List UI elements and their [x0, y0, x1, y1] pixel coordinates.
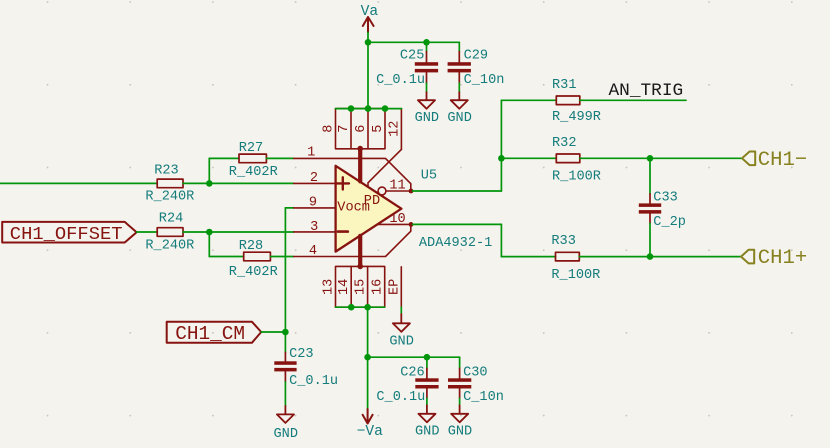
wire pin 15 down to -Va junction [367, 307, 369, 357]
wire C29 bottom lead [458, 83, 460, 92]
svg-text:R_100R: R_100R [551, 268, 600, 283]
svg-text:R32: R32 [552, 136, 576, 151]
svg-text:U5: U5 [421, 168, 437, 183]
svg-text:4: 4 [309, 244, 317, 259]
wire R23 to junction [183, 182, 209, 184]
svg-text:GND: GND [389, 334, 413, 349]
hierarchical label CH1- [742, 149, 807, 172]
wire input to R23 [0, 182, 157, 184]
wire C25 bottom lead [426, 83, 428, 92]
capacitor C23 [274, 347, 338, 389]
junction CH1_CM / C23 [282, 329, 289, 336]
svg-text:GND: GND [415, 424, 439, 439]
op-amp U5 bottom supply pin box (pins 13,14,15,16) [336, 266, 385, 307]
junction at Va branch [365, 39, 372, 46]
resistor R32 [552, 136, 601, 185]
svg-text:C29: C29 [464, 49, 488, 64]
hierarchical label CH1+ [741, 247, 807, 270]
svg-text:10: 10 [389, 212, 405, 227]
global label CH1_OFFSET [2, 222, 136, 245]
resistor R33 [551, 234, 600, 283]
op-amp U5 plus input marker [337, 177, 349, 189]
op-amp U5 body triangle [336, 166, 402, 252]
wire to R28 [209, 256, 243, 258]
resistor R24 [145, 212, 194, 254]
svg-text:R31: R31 [552, 78, 576, 93]
junction C33 top [647, 155, 654, 162]
svg-text:R27: R27 [239, 141, 263, 156]
svg-text:ADA4932-1: ADA4932-1 [419, 236, 492, 251]
PD diagonal route to triangle [368, 149, 401, 187]
pin 14 divider line [350, 266, 352, 307]
wire C30 top lead [459, 357, 461, 368]
junction pin 15 [364, 304, 371, 311]
svg-text:R_402R: R_402R [229, 265, 278, 280]
svg-text:GND: GND [274, 427, 298, 442]
junction pin 14 [348, 304, 355, 311]
wire Va vertical to U5 top pins [367, 32, 369, 108]
svg-text:16: 16 [371, 279, 386, 295]
wire EP to ground [400, 307, 402, 314]
svg-text:C30: C30 [463, 365, 487, 380]
pin 3 stub [294, 231, 336, 233]
resistor R28 [229, 239, 278, 280]
svg-text:GND: GND [447, 111, 471, 126]
svg-text:11: 11 [389, 179, 405, 194]
svg-text:R_100R: R_100R [552, 170, 601, 185]
svg-text:R33: R33 [551, 234, 575, 249]
wire junction down to R28 line [208, 232, 210, 257]
svg-text:GND: GND [415, 111, 439, 126]
svg-text:R28: R28 [239, 239, 263, 254]
wire down to -Va flag [367, 357, 369, 409]
svg-text:15: 15 [354, 279, 369, 295]
junction -Va branch [364, 354, 371, 361]
wire R28 to pin 4 [270, 256, 293, 258]
junction R32 branch [498, 155, 505, 162]
wire right bus vertical [500, 100, 502, 191]
svg-text:Va: Va [361, 4, 379, 20]
wire C23 bottom lead [284, 382, 286, 406]
wire C33 bottom lead [649, 223, 651, 256]
power flag -Va [363, 409, 373, 424]
ground under C30 [448, 405, 472, 439]
svg-text:C23: C23 [289, 347, 313, 362]
wire CH1_CM to junction [261, 331, 285, 333]
pin 11 connection dot [409, 189, 414, 194]
pin 10 output line [377, 223, 411, 225]
pin 7 divider line [350, 109, 352, 149]
pin 11 output line [386, 190, 411, 192]
svg-text:GND: GND [448, 424, 472, 439]
svg-text:2: 2 [310, 171, 318, 186]
svg-text:C_10n: C_10n [463, 390, 504, 405]
svg-text:C_2p: C_2p [653, 215, 686, 230]
ground under C29 [447, 92, 471, 126]
op-amp U5 minus input marker [338, 230, 348, 233]
pin 9 stub [294, 207, 336, 209]
svg-text:C_0.1u: C_0.1u [376, 390, 425, 405]
pin 11 inverted output bubble [378, 187, 386, 195]
wire top supply row [336, 108, 402, 110]
wire junction dots on top supply wire [348, 105, 355, 112]
capacitor C29 [448, 49, 505, 88]
svg-text:R_240R: R_240R [145, 190, 194, 205]
ground under C26 [415, 405, 439, 439]
resistor R27 [229, 141, 278, 180]
svg-text:9: 9 [309, 196, 317, 211]
wire to R31 [501, 99, 556, 101]
svg-text:CH1+: CH1+ [758, 247, 807, 270]
thick supply line bottom [358, 236, 362, 267]
svg-text:6: 6 [354, 125, 369, 133]
wire R31 to AN_TRIG [580, 99, 686, 101]
pin 6 divider line [367, 109, 369, 149]
pin 1 feedback line [294, 158, 411, 191]
pin 15 divider line [367, 266, 369, 307]
wire right bus down to R33 line [500, 224, 502, 256]
wire R24 to junction [183, 231, 209, 233]
ground under C23 [274, 406, 298, 442]
thick supply line top [358, 149, 362, 182]
ground under C25 [415, 92, 439, 126]
resistor R31 [552, 78, 601, 125]
svg-text:8: 8 [322, 125, 337, 133]
svg-text:5: 5 [371, 125, 386, 133]
wire to R33 [501, 256, 555, 258]
wire pin 9 vertical down to CH1_CM [284, 208, 286, 332]
wire CH1_OFFSET to R24 [137, 231, 158, 233]
pin EP exposed pad line [400, 267, 402, 307]
wire R27 to pin 1 [266, 157, 293, 159]
wire junction up to R27 line [208, 158, 210, 183]
capacitor C33 [639, 190, 686, 230]
wire pin 9 horizontal [285, 207, 293, 209]
svg-text:C26: C26 [400, 365, 424, 380]
wire C33 top lead [649, 158, 651, 194]
capacitor C30 [448, 365, 504, 405]
ground at EP [389, 314, 413, 349]
svg-text:EP: EP [387, 279, 402, 295]
pin 12 PD pin line [400, 109, 402, 150]
junction C26 branch [424, 354, 431, 361]
wire C26 top lead [426, 357, 428, 368]
svg-text:1: 1 [307, 146, 315, 161]
svg-text:−Va: −Va [357, 424, 384, 440]
svg-text:CH1−: CH1− [758, 149, 807, 172]
op-amp U5 top supply pin box (pins 8,7,6,5) [336, 109, 386, 149]
svg-text:C33: C33 [653, 190, 677, 205]
capacitor C26 [376, 365, 438, 405]
wire junction to pin 3 [209, 231, 293, 233]
wire pin 10 to right bus [413, 223, 502, 225]
svg-text:R_499R: R_499R [552, 110, 601, 125]
wire bottom supply row [336, 306, 385, 308]
wire C26 bottom lead [426, 398, 428, 405]
svg-text:3: 3 [310, 220, 318, 235]
wire C30 bottom lead [459, 398, 461, 405]
wire pin 11 to right bus [413, 190, 502, 192]
pin 2 stub [294, 182, 336, 184]
svg-text:PD: PD [364, 194, 380, 209]
svg-text:14: 14 [337, 279, 352, 295]
svg-text:C_0.1u: C_0.1u [289, 374, 338, 389]
svg-text:C_10n: C_10n [464, 73, 505, 88]
wire R33 to CH1+ port [579, 256, 741, 258]
pin 10 connection dot [409, 222, 414, 227]
wire R32 to CH1- port [580, 157, 742, 159]
svg-text:7: 7 [337, 125, 352, 133]
wire C23 top lead [284, 332, 286, 352]
svg-text:C_0.1u: C_0.1u [376, 73, 425, 88]
svg-text:13: 13 [322, 279, 337, 295]
svg-text:R_240R: R_240R [145, 239, 194, 254]
pin 4 feedback line [294, 224, 411, 256]
wire C29 top lead [458, 42, 460, 51]
capacitor C25 [376, 49, 438, 88]
wire junction to pin 2 [209, 182, 293, 184]
svg-text:12: 12 [387, 121, 402, 137]
resistor R23 [145, 163, 194, 204]
svg-text:R_402R: R_402R [229, 165, 278, 180]
wire -Va horizontal to caps [368, 356, 460, 358]
junction R24/R28 [206, 229, 213, 236]
power flag Va [363, 17, 374, 32]
wire Va horizontal to decoupling caps [368, 41, 459, 43]
svg-text:C25: C25 [400, 49, 424, 64]
svg-text:CH1_CM: CH1_CM [175, 323, 245, 345]
wire C25 top lead [426, 42, 428, 51]
svg-text:AN_TRIG: AN_TRIG [609, 81, 684, 101]
junction at C25 branch [423, 39, 430, 46]
svg-text:R23: R23 [154, 163, 178, 178]
wire to R32 [501, 157, 556, 159]
junction C33 bottom [647, 253, 654, 260]
global label CH1_CM [167, 322, 262, 346]
svg-text:R24: R24 [159, 212, 183, 227]
junction R23/R27 [206, 180, 213, 187]
wire to R27 [209, 157, 239, 159]
svg-text:CH1_OFFSET: CH1_OFFSET [10, 223, 123, 245]
